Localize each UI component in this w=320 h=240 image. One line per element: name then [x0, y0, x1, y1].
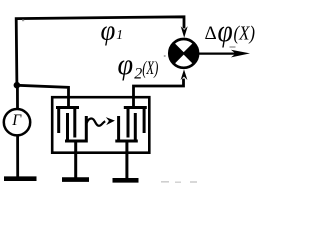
svg-text:φ: φ [218, 14, 233, 48]
svg-text:(X): (X) [142, 58, 158, 79]
svg-text:Δ: Δ [205, 23, 217, 44]
svg-text:1: 1 [116, 27, 123, 42]
svg-text:(X): (X) [234, 23, 256, 45]
svg-text:2: 2 [134, 65, 142, 82]
svg-text:φ: φ [118, 48, 134, 81]
svg-text:φ: φ [101, 14, 116, 46]
svg-text:Γ: Γ [11, 112, 22, 129]
